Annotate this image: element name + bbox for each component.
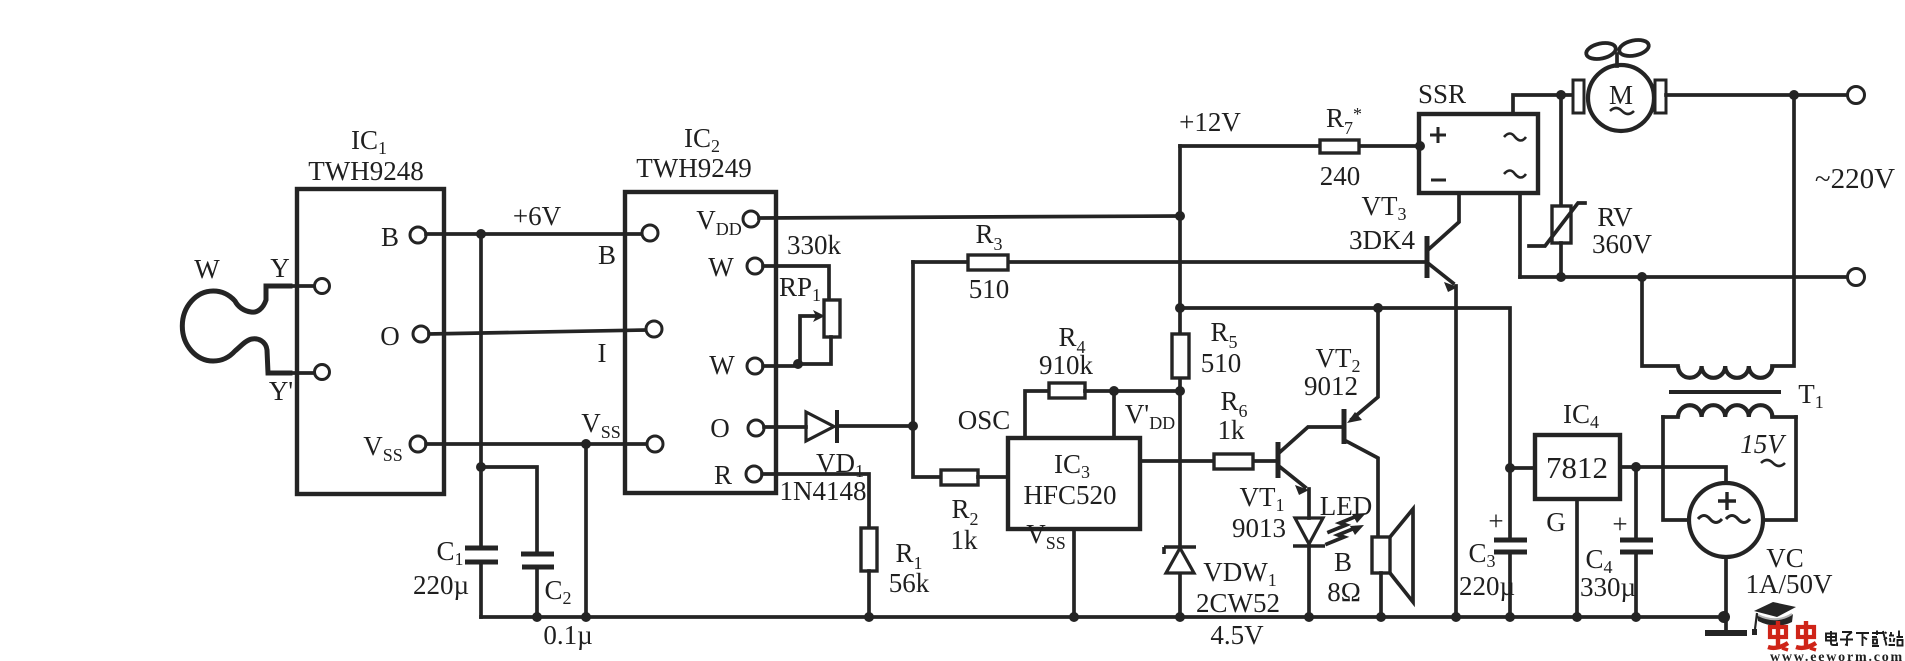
svg-text:~220V: ~220V: [1815, 163, 1895, 195]
varistor RV: [1529, 203, 1585, 246]
svg-text:SSR: SSR: [1418, 79, 1466, 109]
IC3 HFC520 box: [1008, 438, 1140, 529]
fan blades: [1585, 38, 1650, 66]
wire mains bottom: [1520, 275, 1848, 279]
svg-text:910k: 910k: [1039, 350, 1094, 380]
resistor R3: [968, 255, 1008, 270]
svg-text:220µ: 220µ: [1459, 571, 1515, 601]
wire 12V feed from 7812: [1180, 308, 1510, 468]
node IC3 ground: [1069, 612, 1079, 622]
wire VC top to 7812 input: [1621, 467, 1726, 483]
+12V rail vertical: [1178, 146, 1182, 617]
node zener ground: [1175, 612, 1185, 622]
node T1 primary left: [1637, 272, 1647, 282]
wire R1 to ground rail: [867, 571, 871, 617]
resistor R1: [861, 528, 877, 571]
T1 secondary winding: [1663, 405, 1796, 520]
node RP1 wiper junction: [793, 359, 803, 369]
terminal mains top: [1848, 87, 1865, 104]
svg-text:Y': Y': [269, 376, 293, 406]
watermark text dianzi xiazaizhan: [1826, 631, 1903, 647]
capacitor C4: [1620, 467, 1653, 617]
svg-text:RV: RV: [1597, 202, 1633, 232]
node 12V feed join: [1175, 303, 1185, 313]
SSR ac mark upper: [1504, 134, 1526, 141]
IC1 pin B: [381, 222, 426, 252]
node R1 ground: [864, 612, 874, 622]
SSR ac mark lower: [1504, 171, 1526, 178]
wire node up to R3 level: [911, 262, 915, 426]
resistor R4: [1049, 383, 1085, 398]
svg-text:15V: 15V: [1740, 429, 1787, 459]
node VT2 emitter to 12V: [1373, 303, 1383, 313]
LED: [1293, 513, 1366, 546]
svg-text:TWH9249: TWH9249: [636, 153, 751, 183]
SSR box: [1419, 114, 1538, 193]
wire sensor upper lead to Y: [288, 284, 315, 288]
wire IC3 vdd pin down: [1112, 391, 1116, 438]
svg-text:LED: LED: [1320, 491, 1372, 521]
svg-text:Y: Y: [270, 253, 290, 283]
T1 core: [1669, 390, 1781, 394]
svg-text:TWH9248: TWH9248: [308, 156, 423, 186]
resistor R7: [1180, 140, 1417, 153]
svg-text:B: B: [381, 222, 399, 252]
ground earth symbol: [1705, 630, 1747, 636]
resistor R6: [1214, 454, 1253, 469]
svg-text:W: W: [194, 254, 220, 284]
IC1 pin Vss: [363, 431, 426, 465]
terminal Y': [315, 365, 330, 380]
wire VC bottom to earth: [1724, 557, 1728, 631]
IC4 7812 box: [1535, 435, 1620, 499]
svg-text:O: O: [380, 321, 400, 351]
IC1 pin O: [380, 321, 429, 351]
SSR minus terminal: [1431, 179, 1446, 182]
svg-text:0.1µ: 0.1µ: [543, 620, 592, 650]
node C2 ground: [532, 612, 542, 622]
wire O pin to diode: [764, 425, 806, 429]
svg-text:M: M: [1609, 80, 1633, 110]
svg-text:G: G: [1546, 507, 1566, 537]
wire W lower to RP1 wiper node: [763, 364, 798, 368]
IC2 pin W lower: [709, 350, 763, 380]
capacitor C2: [521, 554, 554, 617]
svg-text:4.5V: 4.5V: [1210, 620, 1264, 650]
svg-text:1k: 1k: [951, 525, 979, 555]
svg-text:9013: 9013: [1232, 513, 1286, 543]
watermark chongchong red glyph 1: [1768, 621, 1788, 650]
svg-text:VDW1: VDW1: [1203, 557, 1276, 590]
node SSR input: [1415, 141, 1425, 151]
node 7812 ground: [1572, 612, 1582, 622]
svg-text:1N4148: 1N4148: [780, 476, 867, 506]
capacitor C3: [1494, 468, 1527, 617]
T1 primary winding: [1642, 95, 1794, 378]
node RV top: [1556, 90, 1566, 100]
svg-text:2CW52: 2CW52: [1196, 588, 1280, 618]
IC2 pin I: [598, 321, 663, 368]
IC2 pin Vss left: [581, 408, 663, 452]
wire 7812 output: [1510, 466, 1535, 470]
IC2 pin O: [710, 413, 764, 443]
wire Vss : IC1 to IC2: [426, 442, 646, 446]
wire W upper to RP1: [763, 266, 829, 300]
svg-text:B: B: [1334, 547, 1352, 577]
node Vss ground tap: [581, 439, 591, 449]
sensor W: [182, 286, 290, 373]
node IC3 vdd pin: [1109, 386, 1119, 396]
svg-text:I: I: [598, 338, 607, 368]
wire IC3 output to VT1 base: [1140, 459, 1276, 463]
svg-text:330µ: 330µ: [1580, 572, 1636, 602]
capacitor C1: [465, 548, 498, 617]
svg-text:330k: 330k: [787, 230, 842, 260]
wire R pin to R1: [762, 474, 869, 528]
resistor R2: [941, 470, 978, 485]
node VC ground: [1718, 611, 1730, 623]
node VT3 emitter ground: [1451, 612, 1461, 622]
IC1 TWH9248 box: [297, 189, 444, 494]
svg-text:7812: 7812: [1546, 450, 1608, 485]
svg-text:+: +: [1612, 509, 1627, 539]
node speaker ground: [1376, 612, 1386, 622]
speaker B 8ohm: [1372, 509, 1413, 617]
watermark chongchong red glyph 2: [1796, 621, 1816, 650]
wire VT1 emitter to LED: [1307, 489, 1311, 518]
wire LED to ground: [1307, 546, 1311, 617]
node Vss ground: [581, 612, 591, 622]
svg-text:+12V: +12V: [1179, 107, 1241, 137]
wire R2 to IC3: [978, 475, 1008, 479]
wire VDD to +12V rail: [759, 216, 1180, 218]
IC2 TWH9249 box: [625, 192, 776, 493]
svg-text:W: W: [708, 252, 734, 282]
node C4 tap: [1631, 462, 1641, 472]
wire 7812 ground pin: [1575, 499, 1579, 617]
svg-text:1A/50V: 1A/50V: [1746, 569, 1834, 599]
wire IC3 osc pin up: [1025, 391, 1049, 438]
node on B wire: [476, 229, 486, 239]
svg-text:1k: 1k: [1218, 415, 1246, 445]
potentiometer RP1: [800, 300, 840, 364]
SSR plus terminal: [1430, 127, 1446, 143]
node C3 ground: [1505, 612, 1515, 622]
wire SSR output top riser: [1513, 95, 1576, 114]
wire R3 line : diode node to VT3 base: [913, 260, 1427, 264]
node LED ground: [1304, 612, 1314, 622]
node C4 ground: [1631, 612, 1641, 622]
wire branch to C2: [481, 467, 537, 551]
svg-text:240: 240: [1320, 161, 1361, 191]
svg-text:HFC520: HFC520: [1023, 480, 1116, 510]
transistor VT3 3DK4: [1427, 193, 1459, 617]
node RV bottom: [1556, 272, 1566, 282]
wire SSR output bottom riser: [1518, 193, 1522, 277]
IC2 pin B: [598, 225, 658, 270]
node T1 primary top: [1789, 90, 1799, 100]
svg-text:B: B: [598, 240, 616, 270]
motor M: [1573, 65, 1666, 131]
IC2 pin VDD: [696, 205, 759, 239]
wire sensor lower lead to Y': [288, 371, 315, 375]
resistor R5: [1172, 334, 1189, 378]
svg-text:3DK4: 3DK4: [1349, 225, 1415, 255]
svg-text:510: 510: [1201, 348, 1242, 378]
node VDD join: [1175, 211, 1185, 221]
wire Vss down to ground rail: [584, 444, 588, 617]
svg-text:+6V: +6V: [513, 201, 562, 231]
svg-text:9012: 9012: [1304, 371, 1358, 401]
node 7812 output: [1505, 463, 1515, 473]
terminal mains bottom: [1848, 269, 1865, 286]
node V'DD join: [1175, 386, 1185, 396]
svg-text:8Ω: 8Ω: [1327, 577, 1361, 607]
wire diode to node: [838, 424, 913, 428]
wire IC3 ground pin: [1072, 529, 1076, 617]
IC2 pin R: [714, 460, 762, 490]
rectifier VC: [1689, 483, 1763, 557]
transistor VT1 9013: [1278, 427, 1342, 495]
svg-text:510: 510: [969, 274, 1010, 304]
svg-text:360V: 360V: [1592, 229, 1653, 259]
svg-text:R: R: [714, 460, 732, 490]
zener VDW1 2CW52: [1164, 547, 1196, 573]
svg-text:56k: 56k: [889, 568, 930, 598]
svg-text:O: O: [710, 413, 730, 443]
watermark logo cap: [1752, 602, 1796, 635]
svg-text:220µ: 220µ: [413, 570, 469, 600]
svg-text:www.eeworm.com: www.eeworm.com: [1770, 650, 1904, 661]
svg-text:W: W: [709, 350, 735, 380]
wire motor to mains top terminal: [1666, 93, 1848, 97]
wire R4 to Vdd' node: [1085, 389, 1180, 393]
wire RV top: [1559, 95, 1563, 206]
wire O : IC1 to IC2 pin I: [429, 330, 646, 334]
wire B : IC1 to IC2 (+6V line): [426, 232, 642, 236]
wire +6V down to C1: [479, 234, 483, 545]
diode VD1 1N4148: [806, 410, 837, 443]
label ac under 15V: [1761, 460, 1785, 466]
node C2 branch: [476, 462, 486, 472]
terminal Y: [315, 279, 330, 294]
IC2 pin W upper: [708, 252, 763, 282]
wire node down to R2: [913, 426, 941, 477]
node diode output: [908, 421, 918, 431]
transistor VT2 9012: [1344, 308, 1378, 537]
wire RV bottom: [1559, 243, 1563, 277]
svg-text:OSC: OSC: [958, 405, 1011, 435]
ground rail: [481, 615, 1724, 619]
svg-text:+: +: [1488, 506, 1503, 536]
